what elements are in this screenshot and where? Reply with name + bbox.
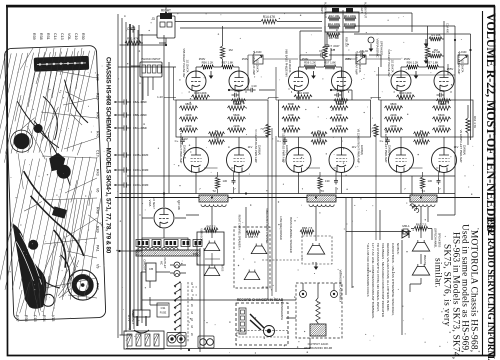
svg-text:C14: C14 [53, 33, 57, 40]
svg-text:PHONO INPUT: PHONO INPUT [141, 57, 161, 61]
svg-text:7V: 7V [260, 127, 264, 131]
svg-text:220K: 220K [185, 124, 192, 128]
wire grid feed line x=444 [442, 21, 450, 70]
resistor R1 10K [424, 33, 442, 47]
svg-text:R37: R37 [15, 315, 19, 322]
wire junction dots [118, 12, 471, 351]
svg-text:R14 47K: R14 47K [263, 15, 276, 19]
motor sockets B3 B4 [167, 333, 186, 347]
svg-text:R34: R34 [42, 315, 46, 322]
svg-text:V5A RIGHT AF AMP: V5A RIGHT AF AMP [252, 51, 256, 76]
svg-text:220K: 220K [390, 124, 397, 128]
svg-text:V10A: V10A [148, 200, 152, 207]
svg-text:255V: 255V [447, 67, 454, 71]
svg-text:T2: T2 [212, 189, 216, 193]
connector phono input [140, 57, 162, 77]
svg-text:560K: 560K [233, 102, 240, 106]
svg-text:R42: R42 [96, 283, 100, 290]
svg-text:V4 12AB5 BASS PWR AMP: V4 12AB5 BASS PWR AMP [254, 129, 258, 163]
svg-text:220K: 220K [185, 113, 192, 117]
svg-text:R40 100K: R40 100K [297, 91, 310, 95]
svg-text:LOUD: LOUD [460, 51, 467, 54]
svg-text:LEFT: LEFT [360, 7, 363, 14]
svg-text:*114-138 VAC COMPRESSION COILS: *114-138 VAC COMPRESSION COILS [366, 243, 370, 297]
svg-text:PRESTO: PRESTO [423, 255, 426, 265]
svg-text:R57 50K: R57 50K [329, 36, 340, 40]
circuit breaker / AC outlet [143, 257, 168, 281]
svg-text:R57 1.8K: R57 1.8K [427, 61, 439, 65]
connector J3 right audio input [151, 9, 175, 39]
svg-text:R56 1.2K: R56 1.2K [202, 61, 214, 65]
tube V1A 6EU7 [142, 194, 188, 251]
svg-text:VOL: VOL [67, 33, 71, 40]
svg-text:C3: C3 [127, 27, 131, 31]
svg-text:1/2 12AX7A: 1/2 12AX7A [391, 60, 394, 73]
svg-text:V9: V9 [96, 264, 100, 268]
svg-text:R31: R31 [46, 33, 50, 40]
wire dashed speaker links [192, 260, 300, 295]
pilot lamp PL2 [174, 271, 180, 277]
page header 1962 RADIO SERVICING INFORMATION [485, 218, 495, 360]
svg-text:V9 12AB5 LEFT PWR AMP: V9 12AB5 LEFT PWR AMP [459, 130, 463, 163]
svg-text:220K: 220K [336, 124, 343, 128]
svg-text:1/2 6EU7: 1/2 6EU7 [152, 197, 156, 209]
svg-text:R58 7.5: R58 7.5 [248, 235, 258, 239]
wire top extra buses [248, 55, 455, 90]
svg-text:C+: C+ [380, 139, 384, 143]
svg-text:PA1: PA1 [96, 245, 100, 252]
svg-text:VOLTAGES - MEASURED FROM POINT: VOLTAGES - MEASURED FROM POINT INDICATED [381, 243, 385, 318]
svg-text:C20: C20 [96, 74, 100, 81]
svg-text:S: S [191, 304, 193, 308]
wire notes bracket [380, 210, 402, 335]
svg-text:250V: 250V [404, 57, 411, 61]
svg-text:C16B+ 40MF: C16B+ 40MF [133, 153, 149, 157]
svg-text:C8C+ 20MF: C8C+ 20MF [133, 126, 147, 130]
speaker box vibrasonic and bass speakers [197, 225, 224, 276]
svg-text:470: 470 [439, 89, 444, 93]
resistor R28 4.7K [263, 124, 271, 137]
svg-text:SPEAKER: SPEAKER [380, 41, 384, 56]
svg-text:117V: 117V [127, 315, 131, 322]
fuse box C31 [157, 303, 169, 317]
photo bottom callout labels R37 R36 C15 R34 V13 [15, 315, 55, 322]
wire top-right distribution [467, 105, 469, 145]
svg-text:R58 220: R58 220 [345, 37, 349, 47]
svg-text:V3 12AB5 RIGHT PWR AMP: V3 12AB5 RIGHT PWR AMP [179, 129, 183, 164]
speaker terminal strips [136, 240, 202, 247]
svg-text:R51 47K: R51 47K [127, 37, 139, 41]
right column separator rule [482, 11, 484, 355]
svg-text:MR-1: MR-1 [402, 224, 410, 228]
wire lower interconnects [120, 197, 456, 335]
potentiometers loudness/balance [253, 51, 468, 64]
switch S2 pushbutton contact stack [174, 281, 193, 350]
svg-text:R2 1M: R2 1M [432, 50, 441, 54]
svg-text:250V: 250V [302, 57, 309, 61]
svg-text:255V: 255V [345, 57, 352, 61]
svg-text:R36: R36 [24, 315, 28, 322]
svg-text:C10: C10 [252, 84, 257, 88]
svg-text:470: 470 [234, 89, 239, 93]
svg-text:220K: 220K [288, 124, 295, 128]
page header VOLUME R-22 MOST-OFTEN-NEEDED [484, 13, 498, 233]
svg-text:SPEAKERS: SPEAKERS [438, 233, 442, 248]
svg-text:C8A+ 40MF: C8A+ 40MF [133, 100, 147, 104]
svg-text:C1A 400: C1A 400 [446, 23, 450, 34]
svg-text:V2B LEFT PHASE INV: V2B LEFT PHASE INV [387, 49, 391, 77]
svg-text:4.7K: 4.7K [371, 127, 374, 132]
svg-text:1.3K: 1.3K [214, 137, 220, 141]
capacitor C3 [127, 25, 135, 33]
svg-text:CAPACITORS - UNLESS OTHERWISE: CAPACITORS - UNLESS OTHERWISE SPECIFIED, [391, 243, 395, 316]
speaker box right channel speakers [234, 215, 270, 288]
svg-text:AC: AC [160, 261, 164, 265]
svg-text:RIGHT CHANNEL SPEAKER: RIGHT CHANNEL SPEAKER [238, 215, 241, 248]
record changer bottom strip [237, 331, 288, 338]
svg-text:R29: R29 [96, 93, 100, 100]
pilot lamp PL1 [174, 262, 180, 268]
svg-text:NOTES:: NOTES: [396, 243, 400, 255]
svg-text:C15: C15 [33, 315, 37, 322]
svg-text:R49: R49 [96, 226, 100, 233]
svg-text:C16C+ 20MF: C16C+ 20MF [133, 168, 149, 172]
capacitor C10 coupling [248, 84, 257, 92]
wire top bus y=13 [168, 13, 412, 32]
svg-text:11V: 11V [454, 145, 459, 149]
svg-text:12AB5(A): 12AB5(A) [360, 145, 363, 156]
amplifier channel A tubes V5 V3 (right/bass) [174, 26, 269, 194]
svg-text:V6B BASS PHASE INV: V6B BASS PHASE INV [285, 49, 289, 77]
svg-text:R57 1.8K: R57 1.8K [222, 61, 234, 65]
svg-text:VIBRASONIC ASSEMBLY: VIBRASONIC ASSEMBLY [339, 270, 343, 303]
svg-text:130: 130 [428, 179, 433, 183]
capacitor C9 .02 coupling [318, 49, 327, 57]
svg-text:12AB5(A): 12AB5(A) [285, 145, 288, 156]
jack vibrasonic speaker [368, 37, 384, 58]
svg-text:C+: C+ [175, 139, 179, 143]
svg-text:similar.: similar. [433, 258, 443, 288]
svg-text:C31: C31 [161, 306, 166, 310]
transformer T4 output (channel C) [410, 189, 437, 207]
svg-text:C13: C13 [60, 33, 64, 40]
svg-text:AC ONLY: AC ONLY [131, 312, 135, 325]
svg-text:TO CHASSIS WITH A VTVM, NO SIG: TO CHASSIS WITH A VTVM, NO SIGNAL INPUT, [376, 243, 380, 312]
svg-text:470: 470 [337, 89, 342, 93]
svg-text:R13 100K: R13 100K [344, 22, 356, 26]
caption MOTOROLA Chassis HS-968 text block [433, 224, 479, 359]
svg-text:R30: R30 [81, 33, 85, 40]
resistor R2 1M [424, 50, 442, 64]
svg-text:560K: 560K [336, 102, 343, 106]
chassis photograph (top view drawing) [0, 45, 106, 321]
wire main bus y=197.5 [115, 197, 480, 199]
resistor R64 4.7K [466, 116, 477, 133]
svg-text:FUSE: FUSE [160, 312, 167, 315]
svg-text:AUDIO INPUT: AUDIO INPUT [324, 2, 327, 19]
svg-text:CHASSIS HS-968 SCHEMATIC—MODEL: CHASSIS HS-968 SCHEMATIC—MODELS SK54-1, … [105, 57, 112, 254]
svg-text:1.4V: 1.4V [157, 95, 163, 99]
svg-text:250V: 250V [242, 57, 249, 61]
svg-text:1/2 12AX7A: 1/2 12AX7A [256, 60, 259, 73]
svg-text:130: 130 [325, 179, 330, 183]
svg-text:R38: R38 [39, 33, 43, 40]
interlock connector block [124, 331, 164, 349]
svg-text:OUTLET: OUTLET [163, 257, 167, 268]
svg-text:560K: 560K [438, 113, 445, 117]
wire bus y=193.5 [120, 193, 456, 195]
svg-text:560K: 560K [438, 102, 445, 106]
wire power section interconnects [120, 248, 311, 352]
rectifier MR-1 selenium [402, 224, 410, 238]
svg-text:CIRCUIT: CIRCUIT [143, 259, 147, 271]
amplifier channel C tubes V5A V6 left [379, 26, 474, 194]
svg-text:560K: 560K [233, 113, 240, 117]
wire top bus y=28 [180, 27, 322, 29]
svg-text:1/2 12AX7A: 1/2 12AX7A [288, 60, 291, 73]
svg-text:S: S [191, 289, 193, 293]
svg-text:12AB5(A): 12AB5(A) [258, 145, 261, 156]
resistor R14 47K [261, 15, 277, 24]
svg-text:LOUD: LOUD [255, 51, 262, 54]
svg-text:117 V AC LINE. COMPRESSION MOU: 117 V AC LINE. COMPRESSION MOUNT TRIMMER… [371, 243, 375, 319]
svg-text:R56 1.2K: R56 1.2K [407, 61, 419, 65]
svg-text:1.3K: 1.3K [316, 137, 322, 141]
photo top callout labels R39 R38 R31 C14 C13 VOL C10 [32, 33, 85, 40]
svg-text:R1 10K: R1 10K [431, 33, 440, 37]
svg-text:R12 10K: R12 10K [329, 14, 340, 18]
photo right callout labels C20 R29 R46 R40 C17 R43 V6 R48 R49 [96, 74, 100, 290]
svg-text:BASS: BASS [221, 265, 224, 272]
speakers left channel + resistor R63 [346, 176, 442, 295]
svg-text:R39: R39 [32, 33, 36, 40]
svg-text:130: 130 [223, 179, 228, 183]
svg-text:C+: C+ [277, 139, 281, 143]
svg-text:1/2 12AX7A: 1/2 12AX7A [186, 60, 189, 73]
svg-text:V6: V6 [96, 188, 100, 192]
svg-text:V5B RIGHT PHASE INV: V5B RIGHT PHASE INV [182, 48, 186, 77]
svg-text:12AB5(A): 12AB5(A) [183, 145, 186, 156]
capacitor C8 .02 coupling [358, 49, 368, 57]
wire vibrasonic channel runs [265, 128, 376, 300]
svg-text:J3: J3 [151, 17, 155, 21]
svg-text:680K: 680K [288, 102, 295, 106]
svg-text:R43: R43 [96, 169, 100, 176]
svg-text:BASS CHANNEL SPEAKER: BASS CHANNEL SPEAKER [289, 217, 293, 253]
svg-text:250V: 250V [199, 57, 206, 61]
wire center audio feed [327, 10, 349, 100]
svg-text:S: S [191, 332, 193, 336]
svg-text:R57 1.8K: R57 1.8K [324, 61, 336, 65]
svg-text:R46: R46 [96, 112, 100, 119]
svg-text:11V: 11V [352, 145, 357, 149]
wire coupling row [229, 55, 381, 100]
svg-text:220K: 220K [233, 124, 240, 128]
svg-text:(OFF)CHANNEL: (OFF)CHANNEL [434, 228, 438, 249]
input divider network R12 R13 R27 R11 [320, 2, 367, 40]
svg-text:S: S [191, 282, 193, 286]
transformer T2 output (channel A) [199, 189, 228, 207]
wire top input interconnects [118, 7, 471, 208]
record changer in rear box with phonograph [236, 298, 288, 345]
svg-text:220K: 220K [390, 113, 397, 117]
wire network bridges [164, 97, 381, 99]
transformer T3 output (channel B) [307, 189, 336, 207]
svg-text:S: S [191, 318, 193, 322]
svg-text:VIBRASONIC: VIBRASONIC [200, 228, 203, 244]
svg-text:1/2 12AX7A: 1/2 12AX7A [358, 60, 361, 73]
amplifier channel B tubes V6 V7 [276, 26, 371, 194]
svg-text:OUTPUT JACK: OUTPUT JACK [308, 342, 329, 346]
wire bus y=176 [127, 175, 455, 177]
svg-text:220K: 220K [288, 113, 295, 117]
voltage annotation labels [157, 57, 458, 149]
svg-text:R64 4.7K: R64 4.7K [473, 116, 477, 128]
svg-text:R67 7.5: R67 7.5 [206, 225, 216, 229]
svg-text:12AB5(A): 12AB5(A) [463, 145, 466, 156]
svg-text:T4: T4 [421, 189, 425, 193]
svg-text:V8 12AB5 RIGHT PWR AMP: V8 12AB5 RIGHT PWR AMP [357, 129, 361, 164]
connector C30 terminals [198, 336, 214, 348]
svg-text:S: S [191, 311, 193, 315]
svg-text:S: S [191, 325, 193, 329]
svg-text:1962 RADIO SERVICING INFORMATI: 1962 RADIO SERVICING INFORMATION [485, 218, 495, 360]
capacitors C8/C16 electrolytic bank [115, 99, 149, 187]
svg-text:1.3K: 1.3K [419, 137, 425, 141]
capacitor C7 .0047 [325, 42, 340, 50]
svg-text:1/2 12AX7A: 1/2 12AX7A [461, 60, 464, 73]
svg-text:560K: 560K [336, 113, 343, 117]
svg-text:CB: CB [149, 267, 153, 271]
svg-text:R56 1.2K: R56 1.2K [304, 61, 316, 65]
transformer T1 power (hatched bar) [136, 248, 200, 257]
svg-text:C8 .02: C8 .02 [360, 49, 368, 53]
svg-text:1M: 1M [331, 48, 336, 52]
svg-text:220K: 220K [438, 124, 445, 128]
svg-text:680K: 680K [390, 102, 397, 106]
vibrasonic assembly with output jack [296, 270, 343, 350]
notes text block [366, 243, 400, 319]
svg-text:LOW FREQ DRIVER: LOW FREQ DRIVER [279, 216, 282, 240]
svg-text:1M: 1M [229, 48, 234, 52]
svg-text:R12 100K: R12 100K [328, 22, 340, 26]
svg-text:C16D+ 20MF: C16D+ 20MF [133, 183, 149, 187]
svg-text:C8B+ 20MF: C8B+ 20MF [133, 113, 147, 117]
svg-text:R40 100K: R40 100K [399, 91, 412, 95]
svg-text:R11 100K: R11 100K [344, 14, 356, 18]
svg-text:PHONOGRAPH: PHONOGRAPH [280, 300, 284, 320]
svg-text:AUDIO INPUT: AUDIO INPUT [364, 2, 367, 19]
svg-text:R40: R40 [96, 131, 100, 138]
resistor R61 4.7K [371, 124, 379, 137]
svg-text:R48: R48 [96, 207, 100, 214]
AC plug 117V [127, 310, 150, 333]
svg-text:T3: T3 [320, 189, 324, 193]
resistor R51 47K [125, 37, 141, 46]
svg-text:R40 100K: R40 100K [194, 91, 207, 95]
svg-text:V13: V13 [51, 315, 55, 321]
svg-text:V7 12AB5 BASS PWR AMP: V7 12AB5 BASS PWR AMP [282, 129, 286, 163]
svg-text:0V: 0V [184, 137, 188, 141]
svg-text:DECIMAL VALUES IN MF, ALL OTHE: DECIMAL VALUES IN MF, ALL OTHERS IN MMF. [386, 243, 390, 312]
svg-text:W/VIBRASONIC MO-4B: W/VIBRASONIC MO-4B [304, 346, 332, 350]
svg-text:11V: 11V [248, 145, 253, 149]
speaker bass channel + resistor R66 [289, 217, 332, 270]
svg-text:12AB5(A): 12AB5(A) [388, 145, 391, 156]
svg-text:C10: C10 [74, 33, 78, 40]
svg-text:C17: C17 [96, 150, 100, 157]
svg-text:VOLUME R-22, MOST-OFTEN-NEEDED: VOLUME R-22, MOST-OFTEN-NEEDED [484, 13, 498, 233]
wire left vertical rail bundle [118, 14, 142, 338]
schematic caption CHASSIS HS-968 SCHEMATIC MODELS [105, 57, 112, 254]
svg-text:V6 12AB5 LEFT PWR AMP: V6 12AB5 LEFT PWR AMP [384, 130, 388, 163]
svg-text:C9 .02: C9 .02 [319, 49, 327, 53]
svg-text:VIBRASONIC BASS CHANNEL: VIBRASONIC BASS CHANNEL [265, 208, 268, 244]
